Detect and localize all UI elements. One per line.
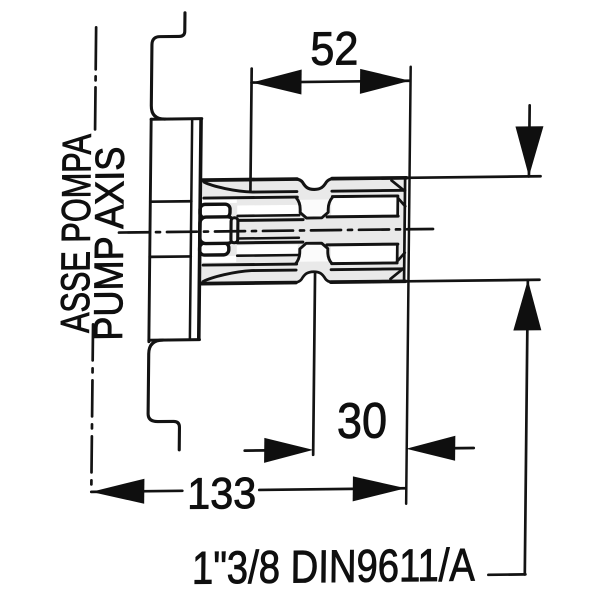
flange plate left edge (149, 119, 151, 342)
pilot face bold edge (199, 120, 201, 340)
nut middle lobe (200, 217, 234, 244)
dim 30 tail left (245, 449, 268, 452)
svg-text:133: 133 (187, 469, 257, 519)
core line bottom (237, 241, 302, 245)
diameter extension top (407, 176, 541, 178)
pump body outline upper (151, 13, 185, 119)
dim 52 arrow right (360, 68, 410, 94)
spec leader line (488, 573, 525, 576)
dim extension long right (406, 67, 411, 504)
spline mid line bottom (237, 237, 299, 240)
shaft collar (231, 218, 238, 243)
shaft body fill (201, 178, 406, 284)
bottom relief notch cut (295, 272, 332, 286)
white band above nut (202, 199, 237, 203)
spline inner line top (238, 214, 300, 217)
dim 52 line (252, 81, 411, 83)
plate inner line upper (150, 200, 191, 203)
tooth waist U top (296, 197, 333, 218)
dim 133 arrow left (91, 479, 144, 505)
dim 133 arrow right (353, 476, 406, 502)
white band below nut (202, 256, 237, 263)
diameter dim line lower (525, 280, 528, 575)
dim 30 arrow right (406, 436, 455, 462)
diameter arrow up (513, 280, 542, 331)
pump body outline lower (148, 340, 181, 450)
flange plate right edge (190, 119, 192, 340)
dim 52 arrow left (251, 70, 301, 96)
white flat top right (331, 198, 396, 216)
flange plate bottom (149, 338, 200, 342)
end chamfer bottom outer (390, 268, 403, 279)
white flat bottom right (331, 246, 396, 263)
shaft outer edge top (203, 179, 298, 180)
nut bottom lobe (200, 243, 229, 255)
dim 30 extension left (313, 272, 315, 455)
flange plate top (151, 117, 202, 121)
diameter extension bottom (405, 280, 539, 282)
diameter dim line upper (528, 105, 531, 176)
svg-text:PUMP AXIS: PUMP AXIS (85, 146, 133, 341)
shaft outer edge bottom (201, 283, 296, 284)
end chamfer top outer (391, 180, 404, 191)
spline tooth line top (204, 197, 298, 198)
shaft end face (404, 178, 405, 282)
nut top lobe (200, 204, 230, 218)
bottom notch bump curve (295, 272, 331, 283)
tooth end edge bottom (396, 244, 399, 262)
top relief notch cut (296, 176, 333, 190)
spline inner line bottom (237, 254, 298, 257)
svg-text:52: 52 (310, 21, 359, 75)
svg-text:30: 30 (337, 392, 388, 449)
diameter arrow down (515, 126, 544, 176)
dim 133 line left segment (91, 491, 182, 492)
top notch dip curve (296, 179, 332, 190)
tooth end edge top (396, 196, 399, 215)
plate inner line lower (150, 255, 191, 258)
spline tooth line bottom (203, 264, 297, 265)
dim 30 tail right (450, 447, 474, 450)
core line top (238, 218, 304, 222)
end chamfer bottom tooth (397, 253, 405, 262)
spline root line bottom (203, 270, 296, 282)
horizontal centerline (119, 229, 433, 233)
white flat bottom (237, 245, 298, 255)
svg-text:1"3/8 DIN9611/A: 1"3/8 DIN9611/A (192, 538, 476, 593)
dim 52 extension left (250, 69, 251, 191)
spline root line top (204, 181, 297, 193)
white flat top (237, 205, 298, 215)
tooth waist U bottom (295, 243, 332, 264)
dim 30 arrow left (264, 437, 313, 463)
vertical centerline pump axis (95, 27, 96, 130)
end chamfer top tooth (398, 198, 406, 207)
dim 133 line right segment (259, 488, 406, 490)
